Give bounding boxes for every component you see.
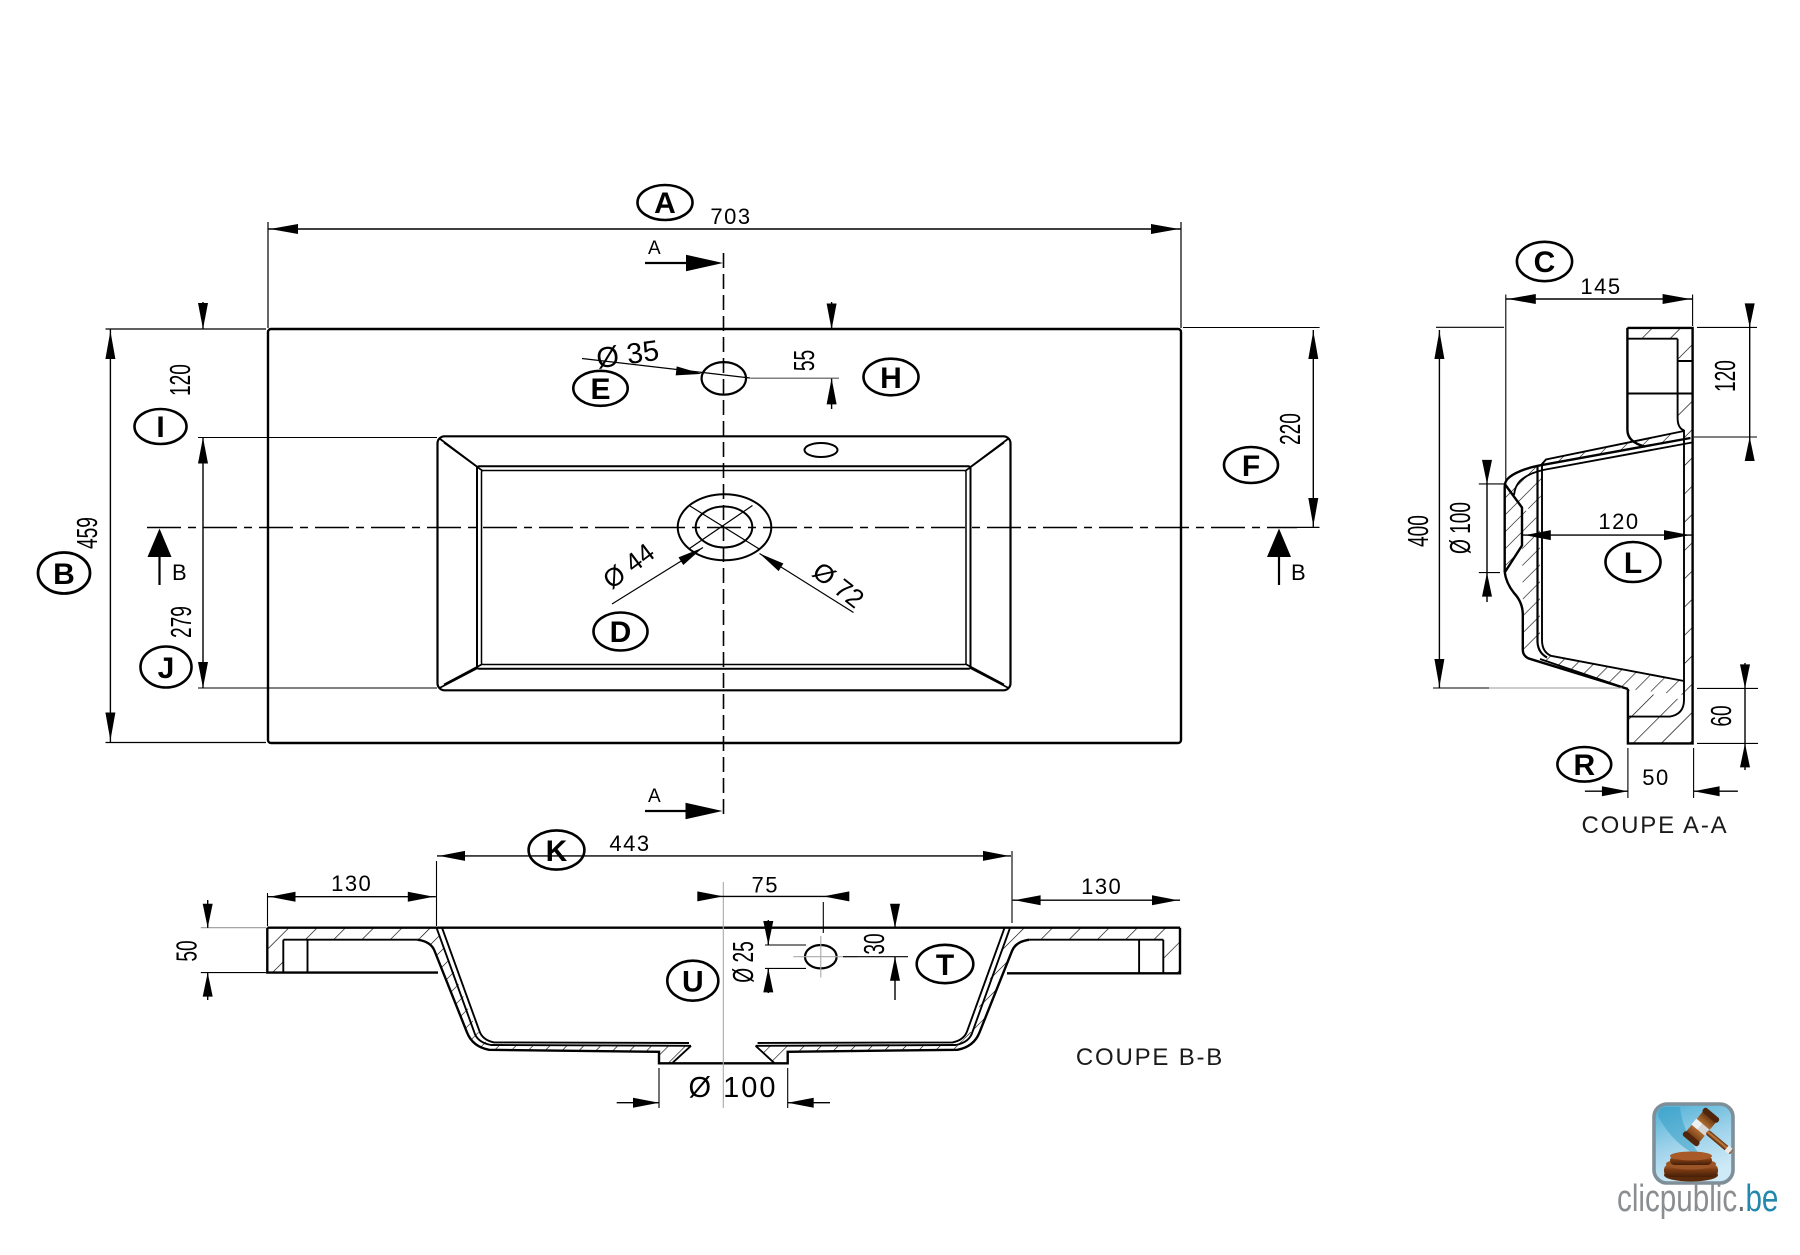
svg-text:T: T [936,949,954,982]
svg-text:L: L [1624,547,1642,580]
svg-text:J: J [158,652,175,685]
svg-text:145: 145 [1580,274,1621,299]
svg-text:60: 60 [1706,705,1738,726]
svg-text:75: 75 [752,873,779,898]
svg-text:120: 120 [1710,360,1742,392]
svg-text:E: E [590,373,610,406]
svg-text:D: D [610,616,632,649]
svg-text:R: R [1573,749,1595,782]
svg-text:Ø 100: Ø 100 [689,1072,778,1104]
svg-text:C: C [1534,246,1556,279]
svg-text:A: A [654,187,676,220]
svg-text:H: H [880,362,902,395]
svg-text:459: 459 [72,517,104,549]
svg-text:50: 50 [172,940,204,961]
svg-text:130: 130 [1081,874,1122,899]
svg-text:400: 400 [1403,515,1435,547]
svg-text:B: B [53,558,75,591]
svg-text:Ø 100: Ø 100 [1445,502,1477,554]
svg-text:443: 443 [609,831,650,856]
svg-text:703: 703 [710,204,751,229]
svg-text:K: K [546,835,568,868]
svg-text:COUPE A-A: COUPE A-A [1582,812,1729,839]
svg-text:B: B [172,560,187,585]
svg-text:220: 220 [1275,413,1307,445]
svg-text:30: 30 [859,933,891,954]
svg-text:55: 55 [789,350,821,371]
svg-text:Ø 25: Ø 25 [728,941,760,982]
svg-text:A: A [648,238,661,259]
svg-text:I: I [156,411,164,444]
svg-text:120: 120 [1598,509,1639,534]
svg-text:A: A [648,786,661,807]
svg-text:F: F [1242,450,1260,483]
svg-text:130: 130 [331,871,372,896]
svg-text:50: 50 [1642,765,1669,790]
svg-text:B: B [1291,560,1306,585]
svg-text:279: 279 [166,606,198,638]
svg-text:clicpublic.be: clicpublic.be [1617,1178,1778,1220]
svg-text:120: 120 [165,364,197,396]
svg-text:COUPE B-B: COUPE B-B [1076,1044,1224,1071]
svg-text:U: U [682,966,704,999]
